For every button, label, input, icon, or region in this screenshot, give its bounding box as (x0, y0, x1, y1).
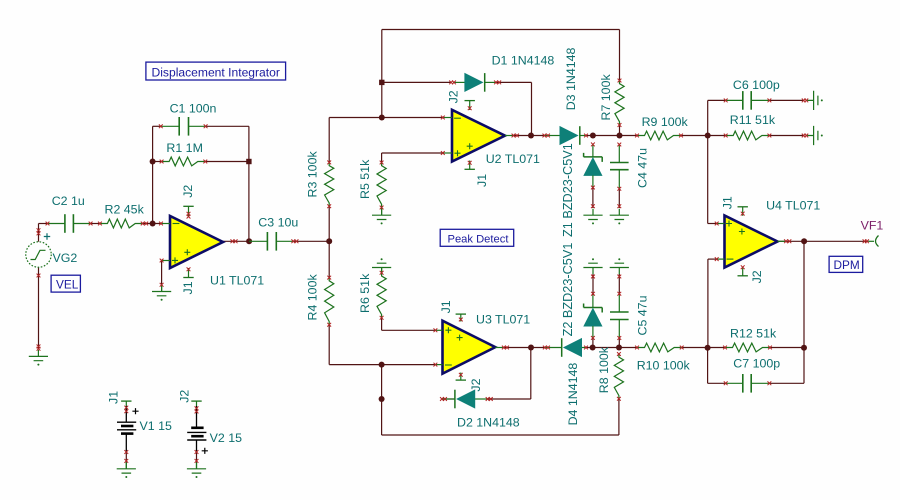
svg-text:J1: J1 (181, 281, 195, 294)
wire (586, 347, 637, 349)
wire Z2 upper (592, 274, 594, 295)
svg-text:V1 15: V1 15 (140, 419, 172, 433)
svg-text:J2: J2 (178, 390, 192, 403)
wire U1 plus ground (161, 261, 163, 287)
wire (381, 365, 383, 399)
capacitor C3 (249, 216, 298, 251)
ground R11 side (807, 126, 823, 145)
svg-text:R4 100k: R4 100k (306, 274, 320, 321)
node D1 feedback (379, 80, 384, 85)
capacitor C6 (726, 78, 780, 110)
svg-text:C5 47u: C5 47u (636, 295, 650, 335)
wire (329, 117, 443, 119)
svg-text:J2: J2 (750, 270, 764, 283)
resistor R12 (725, 327, 777, 352)
svg-text:DPM: DPM (834, 258, 860, 272)
ground Z1 (583, 209, 602, 225)
battery V2 (178, 390, 243, 469)
wire (708, 258, 717, 260)
wire U4 output (778, 240, 869, 242)
resistor R11 (726, 113, 776, 140)
wire C4 to ground (618, 189, 620, 208)
svg-text:C2 1u: C2 1u (52, 194, 85, 208)
U2 power pin J2 (447, 90, 475, 110)
wire (91, 223, 100, 225)
svg-text:VEL: VEL (56, 278, 79, 292)
wire (619, 125, 621, 136)
svg-text:Z1 BZD23-C5V1: Z1 BZD23-C5V1 (561, 143, 575, 237)
wire U3 out (504, 347, 545, 349)
svg-text:V2 15: V2 15 (210, 431, 242, 445)
resistor R6 (358, 273, 386, 318)
wire (381, 30, 383, 118)
wire (38, 224, 40, 242)
wire (293, 240, 329, 242)
wire (382, 81, 451, 83)
svg-text:R11 51k: R11 51k (730, 113, 776, 127)
svg-text:U1 TL071: U1 TL071 (210, 274, 264, 288)
ground C4 (610, 209, 629, 225)
port VF1 (861, 219, 884, 247)
capacitor C1 (161, 102, 217, 136)
wire (206, 125, 249, 127)
svg-text:U4 TL071: U4 TL071 (766, 198, 820, 212)
svg-text:J1: J1 (721, 196, 735, 209)
ground R5 (372, 208, 391, 225)
battery V1 (107, 391, 172, 469)
ground C6 side (807, 91, 823, 110)
svg-text:U2 TL071: U2 TL071 (486, 152, 540, 166)
wire (381, 153, 383, 163)
wire U1 feedback left (152, 126, 154, 223)
wire (382, 329, 436, 331)
wire (488, 398, 531, 400)
wire VG2 ground (38, 267, 40, 349)
node Z1 top (590, 133, 596, 139)
wire U2 out (514, 135, 545, 137)
capacitor C5 (610, 295, 650, 338)
ground C5 inverted (610, 258, 629, 274)
svg-text:J2: J2 (447, 90, 461, 103)
wire (707, 100, 709, 135)
wire U1 output (223, 240, 249, 242)
svg-text:C1 100n: C1 100n (170, 102, 217, 116)
wire (618, 399, 620, 435)
node U3 inverting (379, 362, 385, 368)
diode D3 (544, 48, 586, 145)
pin connection marks (37, 79, 869, 463)
svg-text:R12 51k: R12 51k (730, 327, 777, 341)
wire (328, 206, 330, 277)
wire (769, 135, 803, 137)
node R1-C1 left (150, 159, 156, 165)
svg-text:VF1: VF1 (861, 219, 884, 233)
svg-text:R9 100k: R9 100k (642, 115, 689, 129)
op-amp U1 (161, 216, 264, 288)
label box DPM (829, 256, 863, 272)
node U3 output (528, 345, 534, 351)
svg-text:R7 100k: R7 100k (599, 74, 613, 121)
node R1-C1 right (246, 159, 251, 164)
wire bottom feedback (382, 434, 619, 436)
ground R6 inverted (372, 258, 391, 274)
wire (682, 347, 725, 349)
wire (708, 99, 726, 101)
node U2 output (528, 133, 534, 139)
resistor R4 (306, 274, 334, 325)
resistor R7 (599, 74, 624, 125)
wire (328, 325, 330, 365)
wire (770, 347, 804, 349)
node D2 left (379, 396, 385, 402)
U1 power pin J1 (181, 268, 195, 295)
svg-text:U3 TL071: U3 TL071 (476, 313, 530, 327)
wire (681, 135, 726, 137)
ground V1 (117, 462, 136, 478)
label box VEL (51, 275, 80, 292)
wire (530, 348, 532, 400)
node U1 inverting (150, 221, 156, 227)
svg-text:R1 1M: R1 1M (166, 141, 203, 155)
svg-text:J1: J1 (107, 391, 121, 404)
source VG2 (26, 233, 78, 267)
node C5-R8-R10 (616, 345, 622, 351)
svg-text:R3 100k: R3 100k (306, 151, 320, 198)
resistor R5 (358, 159, 386, 208)
wire (329, 364, 435, 366)
zener Z1 (561, 143, 602, 237)
op-amp U2 (443, 110, 540, 166)
capacitor C4 (610, 145, 650, 189)
svg-text:D4 1N4148: D4 1N4148 (566, 363, 580, 426)
svg-text:VG2: VG2 (53, 251, 78, 265)
svg-text:Peak Detect: Peak Detect (448, 234, 510, 246)
node R9-R11-U4 (705, 133, 711, 139)
svg-text:R6 51k: R6 51k (358, 273, 372, 313)
svg-text:R8 100k: R8 100k (597, 346, 611, 393)
op-amp U3 (435, 313, 530, 374)
svg-text:C7 100p: C7 100p (733, 357, 780, 371)
node R12 right (801, 345, 807, 351)
wire (382, 152, 443, 154)
svg-text:Z2 BZD23-C5V1: Z2 BZD23-C5V1 (561, 243, 575, 337)
U1 power pin J2 (181, 185, 195, 216)
capacitor C7 (726, 357, 781, 393)
label box Displacement Integrator (146, 62, 286, 80)
ground U1 non-inverting (152, 285, 171, 301)
wire (803, 241, 805, 383)
wire (496, 81, 532, 83)
diode D4 (545, 338, 586, 425)
wire top feedback (382, 29, 620, 31)
svg-text:J1: J1 (475, 174, 489, 187)
U3 power pin J2 (456, 373, 483, 392)
node U4 output (801, 238, 807, 244)
node U2 inverting (379, 115, 385, 121)
wire (143, 223, 161, 225)
wire (381, 399, 383, 435)
U4 power pin J2 (738, 267, 765, 283)
wire (442, 398, 455, 400)
svg-text:D1 1N4148: D1 1N4148 (492, 54, 555, 68)
wire (619, 30, 621, 81)
svg-text:D2 1N4148: D2 1N4148 (457, 416, 520, 430)
resistor R3 (306, 151, 334, 207)
svg-text:J2: J2 (181, 185, 195, 198)
resistor R10 (637, 343, 691, 372)
ground Z2 inverted (583, 258, 602, 274)
wire (153, 125, 161, 127)
diode D2 (442, 390, 520, 430)
svg-text:C6 100p: C6 100p (733, 78, 780, 92)
wire Z2 to rail (592, 338, 594, 348)
wire (586, 135, 637, 137)
ground V2 (187, 462, 206, 478)
wire U1 feedback right (248, 126, 250, 241)
svg-text:J2: J2 (469, 378, 483, 391)
U2 power pin J1 (465, 161, 490, 188)
wire (769, 382, 804, 384)
wire C5 upper (618, 274, 620, 295)
diode D1 (453, 54, 554, 92)
U3 power pin J1 (439, 300, 466, 321)
wire (205, 161, 249, 163)
resistor R9 (637, 115, 689, 140)
wire C5 to rail (618, 338, 620, 348)
wire (708, 382, 726, 384)
svg-text:C3 10u: C3 10u (258, 216, 298, 230)
svg-text:R2 45k: R2 45k (105, 202, 145, 216)
node R10-R12-U4 (705, 345, 711, 351)
svg-text:R5 51k: R5 51k (358, 159, 372, 199)
zener Z2 (561, 243, 602, 338)
resistor R1 (162, 141, 206, 166)
wire (153, 161, 162, 163)
wire (708, 223, 717, 225)
wire (707, 348, 709, 384)
wire (707, 259, 709, 348)
wire (381, 318, 383, 331)
svg-text:C4 47u: C4 47u (636, 148, 650, 188)
svg-text:J1: J1 (439, 300, 453, 313)
wire (328, 118, 330, 163)
op-amp U4 (717, 198, 821, 267)
node C3 left (246, 238, 252, 244)
wire (769, 99, 803, 101)
resistor R2 (100, 202, 145, 228)
capacitor C2 (48, 194, 91, 233)
wire U4 plus feed (707, 136, 709, 224)
wire (531, 82, 533, 135)
wire VG2 to C2 (39, 223, 48, 225)
svg-text:Displacement Integrator: Displacement Integrator (152, 65, 280, 79)
ground VG2 (29, 350, 48, 366)
U4 power pin J1 (721, 196, 748, 216)
node Z2 bottom (590, 345, 596, 351)
node C3 right (326, 238, 332, 244)
svg-text:D3 1N4148: D3 1N4148 (564, 48, 578, 111)
wire Z1 to ground (592, 188, 594, 209)
resistor R8 (597, 346, 624, 399)
node R7-C4-R9 (617, 133, 623, 139)
label box Peak Detect (440, 229, 514, 246)
svg-text:R10 100k: R10 100k (637, 359, 691, 373)
